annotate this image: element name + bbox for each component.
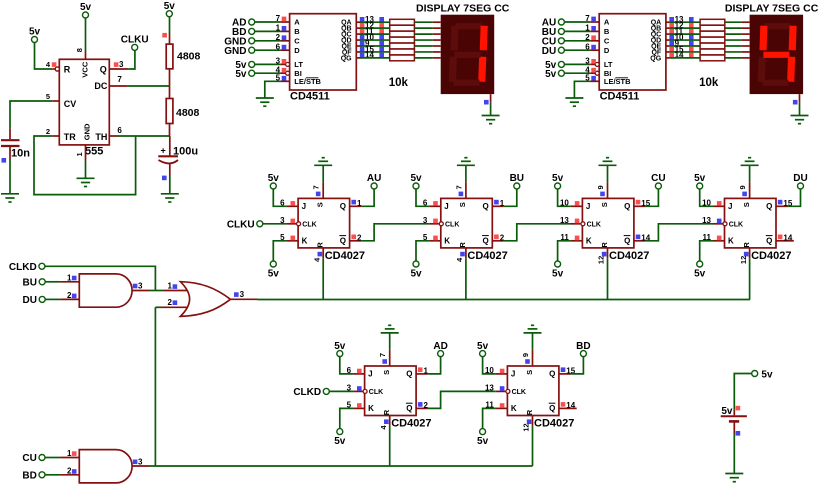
terminal AD (U7 Q output) xyxy=(433,341,447,357)
wire 5v to U5 K xyxy=(558,241,571,261)
svg-text:S: S xyxy=(600,202,609,207)
svg-text:5v: 5v xyxy=(761,370,773,381)
svg-text:4: 4 xyxy=(455,257,464,262)
svg-text:Q: Q xyxy=(340,202,346,211)
wire resistor to display segment f xyxy=(414,51,440,53)
U5 pin 13 number (CLK) xyxy=(560,216,579,225)
svg-text:3: 3 xyxy=(119,60,124,69)
wire BU to AND1 pin 1 xyxy=(45,281,79,283)
svg-text:1: 1 xyxy=(167,281,172,290)
wire AD to U1 pin 7 xyxy=(255,21,290,23)
svg-text:J: J xyxy=(368,370,372,379)
svg-text:Q: Q xyxy=(406,404,412,413)
wire ground to U6 S xyxy=(749,165,751,182)
svg-text:9: 9 xyxy=(521,353,530,357)
power terminal 5v (U4 J) xyxy=(410,173,422,189)
U2 pin 9 number xyxy=(669,39,693,48)
svg-text:10n: 10n xyxy=(11,148,30,160)
svg-text:DU: DU xyxy=(542,46,556,57)
U5 pin 10 number (J) xyxy=(560,199,579,208)
svg-text:2: 2 xyxy=(276,33,281,42)
svg-text:7: 7 xyxy=(117,75,122,84)
U2 pin 2 number xyxy=(585,33,596,42)
svg-text:10: 10 xyxy=(560,199,569,208)
U1 pin 8 number xyxy=(75,48,84,52)
svg-text:BU: BU xyxy=(510,173,524,184)
svg-text:Q: Q xyxy=(549,404,555,413)
svg-text:5v: 5v xyxy=(268,269,280,280)
U6 pin 14 number (Q-bar) xyxy=(778,234,793,243)
svg-text:BU: BU xyxy=(23,277,37,288)
U4 pin 1 number (Q) xyxy=(494,199,505,208)
U3 pin 7 number (S) xyxy=(312,185,321,196)
svg-text:CU: CU xyxy=(651,173,665,184)
power terminal 5v (555 reset) xyxy=(29,27,41,43)
svg-text:J: J xyxy=(586,202,590,211)
svg-text:9: 9 xyxy=(738,185,747,189)
ground (C1) xyxy=(1,194,19,202)
svg-text:S: S xyxy=(316,202,325,207)
power terminal 5v (U7 J) xyxy=(334,341,346,357)
U1 pin 6 number xyxy=(276,42,287,51)
U1 pin 1 number xyxy=(75,152,84,156)
wire U2 QF to resistor xyxy=(666,51,700,53)
svg-text:5v: 5v xyxy=(235,69,247,80)
svg-text:4808: 4808 xyxy=(177,51,201,63)
BCD decoder U2 CD4511 xyxy=(595,14,666,103)
JK flip-flop U5 CD4027 xyxy=(571,182,649,261)
U4 pin 3 number (CLK) xyxy=(423,216,438,225)
svg-text:5v: 5v xyxy=(721,406,733,417)
svg-text:CLKU: CLKU xyxy=(227,219,255,230)
display DISP1 7-segment common-cathode xyxy=(441,15,495,94)
U1 pin 11 number xyxy=(360,27,384,36)
U2 pin 3 number xyxy=(585,57,596,66)
battery BAT1 5v xyxy=(721,406,747,433)
svg-text:1: 1 xyxy=(75,152,84,156)
U8 pin 13 number (CLK) xyxy=(485,384,504,393)
svg-text:LT: LT xyxy=(294,60,303,69)
wire 5v to U7 J xyxy=(340,357,353,374)
U6 pin 13 number (CLK) xyxy=(702,216,721,225)
capacitor C1 10n xyxy=(1,128,30,160)
svg-text:QG: QG xyxy=(650,55,661,62)
wire U6 R to reset rail xyxy=(749,258,751,299)
resistor 10k (QE) xyxy=(700,43,725,49)
wire ground to U5 S xyxy=(607,165,609,182)
resistor 10k (QC) xyxy=(700,31,725,37)
svg-text:12: 12 xyxy=(739,256,748,264)
wire U8 Q to BD xyxy=(570,357,583,374)
svg-text:BD: BD xyxy=(576,341,590,352)
wire 5v to U8 K xyxy=(483,408,496,428)
svg-text:6: 6 xyxy=(117,126,122,135)
JK flip-flop U3 CD4027 xyxy=(287,182,365,261)
wire display cathode to ground xyxy=(799,94,801,115)
svg-text:DISPLAY 7SEG CC: DISPLAY 7SEG CC xyxy=(725,2,819,14)
svg-text:10k: 10k xyxy=(389,77,409,89)
wire U2 QC to resistor xyxy=(666,33,700,35)
OR gate 1 xyxy=(180,282,230,317)
wire AU to U2 pin 7 xyxy=(565,21,600,23)
wire 5v to U5 J xyxy=(558,189,571,206)
wire DU to AND1 pin 2 xyxy=(45,298,79,300)
wire resistor to display segment d xyxy=(725,39,750,41)
svg-text:S: S xyxy=(525,370,534,375)
svg-text:5: 5 xyxy=(280,233,285,242)
wire U1 QE to resistor xyxy=(356,45,389,47)
U1 pin 13 number xyxy=(360,15,384,24)
DISP1 cathode state square xyxy=(484,100,489,105)
U4 pin 4 number (R) xyxy=(455,252,465,262)
wire U2 QE to resistor xyxy=(666,45,700,47)
power terminal 5v (U5 J) xyxy=(552,173,564,189)
svg-text:Q: Q xyxy=(766,237,772,246)
svg-text:K: K xyxy=(586,237,592,246)
svg-text:Q: Q xyxy=(624,202,630,211)
svg-text:5v: 5v xyxy=(477,436,489,447)
U6 pin 12 number (R) xyxy=(739,252,749,264)
U1 pin 3 number xyxy=(114,60,124,69)
power terminal GND (U1 D) xyxy=(224,46,254,57)
wire resistor to display segment b xyxy=(725,27,750,29)
svg-text:1: 1 xyxy=(585,24,590,33)
wire 5v to 555 VCC pin 8 xyxy=(85,18,87,52)
svg-text:4808: 4808 xyxy=(176,107,200,119)
resistor 10k (QE) xyxy=(390,43,415,49)
wire U4 R to reset rail xyxy=(465,258,467,299)
svg-text:5: 5 xyxy=(276,73,281,82)
svg-text:D: D xyxy=(294,46,300,55)
wire 5v to U6 J xyxy=(700,189,713,206)
wire U3 Q to AU xyxy=(361,189,374,206)
wire resistor to display segment a xyxy=(725,21,750,23)
svg-text:2: 2 xyxy=(585,33,590,42)
wire U2 QA to resistor xyxy=(666,21,700,23)
svg-text:1: 1 xyxy=(67,449,72,458)
U1 pin 5 number xyxy=(46,92,50,101)
wire CLKD to U7 CLK xyxy=(329,390,353,392)
svg-text:C: C xyxy=(604,36,610,45)
wire resistor to display segment d xyxy=(414,39,440,41)
svg-text:CLK: CLK xyxy=(369,389,383,396)
wire ground to U4 S xyxy=(465,165,467,182)
terminal AD (U1 A input) xyxy=(232,18,255,29)
svg-text:12: 12 xyxy=(522,423,531,431)
svg-text:3: 3 xyxy=(276,57,281,66)
wire U5 Q-bar to next stage clock xyxy=(645,224,713,241)
svg-text:CLKU: CLKU xyxy=(121,35,149,46)
svg-text:CLK: CLK xyxy=(587,221,601,228)
AND2 pin 2 number xyxy=(67,467,77,476)
resistor 10k (QA) xyxy=(700,19,725,25)
svg-text:R: R xyxy=(458,242,467,248)
svg-text:11: 11 xyxy=(485,401,494,410)
terminal DU (AND1 input 2) xyxy=(23,295,46,306)
svg-text:K: K xyxy=(511,404,517,413)
U3 pin 4 number (R) xyxy=(312,252,322,262)
svg-text:4: 4 xyxy=(312,257,321,262)
svg-text:DC: DC xyxy=(94,81,107,91)
resistor pack value label 10k xyxy=(699,77,719,89)
555 timer U1 xyxy=(52,52,128,161)
svg-text:5v: 5v xyxy=(410,269,422,280)
svg-text:DISPLAY 7SEG CC: DISPLAY 7SEG CC xyxy=(416,2,510,14)
wire BD to U1 pin 1 xyxy=(255,30,290,32)
wire DU to U2 pin 6 xyxy=(565,49,600,51)
resistor 10k (QG) xyxy=(700,55,725,61)
svg-text:4: 4 xyxy=(379,425,388,430)
svg-text:8: 8 xyxy=(75,48,84,52)
svg-text:B: B xyxy=(294,27,300,36)
svg-text:Q: Q xyxy=(340,237,346,246)
svg-text:5v: 5v xyxy=(164,1,176,12)
power terminal 5v (U5 K) xyxy=(552,261,564,280)
U8 pin 12 number (R) xyxy=(522,419,532,431)
svg-text:5v: 5v xyxy=(334,436,346,447)
U8 pin 14 number (Q-bar) xyxy=(561,401,576,410)
power terminal 5v (U3 J) xyxy=(268,173,280,189)
AND1 pin 2 number xyxy=(67,291,77,300)
svg-text:3: 3 xyxy=(240,290,245,299)
wire U2 QD to resistor xyxy=(666,39,700,41)
terminal DU (U6 Q output) xyxy=(793,173,807,189)
wire CLKD to AND1 output net xyxy=(45,266,155,290)
DISP2 cathode state square xyxy=(793,100,798,105)
power terminal 5v (U1 BI) xyxy=(235,69,254,80)
svg-text:S: S xyxy=(458,202,467,207)
svg-text:J: J xyxy=(511,370,515,379)
wire resistor to display segment g xyxy=(725,57,750,59)
U1 pin 12 number xyxy=(360,21,384,30)
display title label xyxy=(725,2,819,14)
wire OR1 input 2 stub xyxy=(155,306,187,308)
wire U3 R to reset rail xyxy=(322,258,324,299)
U6 pin 15 number (Q) xyxy=(778,199,793,208)
svg-text:B: B xyxy=(604,27,610,36)
wire battery positive to 5v terminal xyxy=(734,374,751,410)
AND1 pin 3 number xyxy=(133,282,143,291)
power terminal 5v (U8 J) xyxy=(477,341,489,357)
U8 pin 10 number (J) xyxy=(485,366,504,375)
wire 5v to U2 pin 3 xyxy=(565,63,596,65)
svg-text:BD: BD xyxy=(22,470,36,481)
OR1 pin 1 number xyxy=(167,281,177,290)
svg-text:R: R xyxy=(525,409,534,415)
svg-text:R: R xyxy=(382,409,391,415)
svg-text:5: 5 xyxy=(46,92,50,101)
wire CU to AND2 pin 1 xyxy=(45,457,79,459)
AND1 pin 1 number xyxy=(67,273,77,282)
resistor 10k (QG) xyxy=(390,55,415,61)
svg-text:K: K xyxy=(728,237,734,246)
U5 pin 9 number (S) xyxy=(596,185,605,196)
wire CLKU to U3 CLK xyxy=(263,223,287,225)
wire U6 Q-bar (unconnected stub) xyxy=(788,240,794,242)
U1 pin 1 number xyxy=(276,24,287,33)
wire U1 QF to resistor xyxy=(356,51,389,53)
U5 pin 11 number (K) xyxy=(560,233,579,242)
svg-text:2: 2 xyxy=(167,298,172,307)
svg-text:R: R xyxy=(600,242,609,248)
svg-text:5v: 5v xyxy=(694,173,706,184)
terminal CLKU (555 output) xyxy=(121,35,149,51)
U1 pin 4 number xyxy=(46,60,57,69)
wire 5v to 555 R pin xyxy=(35,43,53,69)
svg-text:R: R xyxy=(742,242,751,248)
svg-text:5v: 5v xyxy=(410,173,422,184)
svg-text:6: 6 xyxy=(585,42,590,51)
terminal CLKD (AND1 output node) xyxy=(9,262,45,273)
power terminal 5v (U7 K) xyxy=(334,429,346,448)
U4 pin 2 number (Q-bar) xyxy=(494,234,505,243)
ground (DISP2) xyxy=(791,116,809,124)
resistor 10k (QD) xyxy=(390,37,415,43)
svg-text:Q: Q xyxy=(624,237,630,246)
wire ground to U3 S xyxy=(322,165,324,182)
svg-text:7: 7 xyxy=(454,185,463,189)
wire ground to U8 S xyxy=(532,333,534,350)
svg-text:CD4511: CD4511 xyxy=(290,90,330,102)
svg-text:J: J xyxy=(302,202,306,211)
display DISP2 7-segment common-cathode xyxy=(750,15,804,94)
svg-text:100u: 100u xyxy=(173,145,198,157)
wire TR to TH node xyxy=(34,136,136,195)
U2 pin 12 number xyxy=(669,21,693,30)
power terminal 5v (U2 BI) xyxy=(545,69,564,80)
svg-text:QG: QG xyxy=(341,55,352,62)
U8 pin 9 number (S) xyxy=(521,353,530,364)
terminal BU (AND1 input 1) xyxy=(23,277,46,288)
svg-text:CD4511: CD4511 xyxy=(600,90,640,102)
U3 pin 2 number (Q-bar) xyxy=(351,234,362,243)
U8 pin 15 number (Q) xyxy=(561,366,576,375)
svg-text:11: 11 xyxy=(703,233,712,242)
wire 5v to U7 K xyxy=(340,408,353,428)
wire resistor to display segment f xyxy=(725,51,750,53)
wire U1 QG to resistor xyxy=(356,57,389,59)
wire U6 Q to DU xyxy=(788,189,801,206)
wire CV to C1 xyxy=(10,101,52,128)
wire resistor to display segment g xyxy=(414,57,440,59)
svg-text:3: 3 xyxy=(138,282,143,291)
resistor 10k (QB) xyxy=(390,25,415,31)
svg-text:A: A xyxy=(604,18,610,27)
svg-text:K: K xyxy=(368,404,374,413)
wire 5v to U1 pin 3 xyxy=(255,63,286,65)
svg-text:Q: Q xyxy=(482,202,488,211)
svg-text:6: 6 xyxy=(276,42,281,51)
JK flip-flop U7 CD4027 xyxy=(353,350,431,430)
svg-text:CLK: CLK xyxy=(729,221,743,228)
wire 5v to U4 K xyxy=(416,241,429,261)
svg-text:5v: 5v xyxy=(29,27,41,38)
wire U1 QC to resistor xyxy=(356,33,389,35)
wire resistor to display segment e xyxy=(414,45,440,47)
U7 pin 5 number (K) xyxy=(347,401,362,410)
svg-text:5v: 5v xyxy=(334,341,346,352)
wire BD to AND2 pin 2 xyxy=(45,474,79,476)
resistor 10k (QF) xyxy=(700,49,725,55)
BCD decoder U1 CD4511 xyxy=(286,14,357,103)
U5 pin 12 number (R) xyxy=(597,252,607,264)
svg-text:13: 13 xyxy=(560,216,569,225)
R1 top pin state square xyxy=(162,33,167,38)
ground (U5 S pin) xyxy=(599,158,617,166)
wire battery negative to ground xyxy=(733,433,735,474)
svg-text:AD: AD xyxy=(433,341,447,352)
AND gate 1 xyxy=(79,274,132,307)
resistor 10k (QF) xyxy=(390,49,415,55)
resistor R2 4808 xyxy=(166,86,199,136)
resistor 10k (QD) xyxy=(700,37,725,43)
U7 pin 3 number (CLK) xyxy=(347,384,362,393)
wire 5v to U3 J xyxy=(273,189,286,206)
wire C1 to ground xyxy=(9,160,11,194)
battery positive state square xyxy=(736,406,741,411)
resistor 10k (QC) xyxy=(390,31,415,37)
svg-text:7: 7 xyxy=(312,185,321,189)
svg-text:7: 7 xyxy=(378,353,387,357)
ground (DISP1) xyxy=(482,116,500,124)
U2 pin 5 number xyxy=(585,73,596,82)
wire AND1/OR1 node to AND2 output rail (OR1 input 2 feed) xyxy=(154,307,156,466)
U7 pin 4 number (R) xyxy=(379,419,389,429)
U1 pin 3 number xyxy=(276,57,287,66)
U2 pin 11 number xyxy=(669,27,693,36)
JK flip-flop U6 CD4027 xyxy=(713,182,791,261)
U7 pin 7 number (S) xyxy=(378,353,387,364)
U1 pin 10 number xyxy=(360,33,384,42)
svg-text:R: R xyxy=(316,242,325,248)
svg-text:4: 4 xyxy=(46,60,51,69)
terminal BU (U2 B input) xyxy=(542,27,565,38)
svg-text:K: K xyxy=(444,237,450,246)
svg-text:AU: AU xyxy=(367,173,381,184)
svg-text:3: 3 xyxy=(347,384,352,393)
svg-text:5: 5 xyxy=(423,233,428,242)
U2 pin 6 number xyxy=(585,42,596,51)
U1 pin 5 number xyxy=(276,73,287,82)
C1 state square xyxy=(2,158,7,163)
terminal CLKU (U3 clock) xyxy=(227,219,263,230)
ground (U3 S pin) xyxy=(314,158,332,166)
svg-text:CLK: CLK xyxy=(445,221,459,228)
U2 pin 15 number xyxy=(669,45,693,54)
U1 pin 2 number xyxy=(46,127,50,136)
wire U7 Q-bar to next stage clock xyxy=(428,391,496,408)
svg-text:5v: 5v xyxy=(80,2,92,13)
wire U1 LE pin 5 to ground xyxy=(265,81,290,98)
svg-text:S: S xyxy=(742,202,751,207)
wire U8 Q-bar (unconnected stub) xyxy=(570,407,576,409)
wire display cathode to ground xyxy=(490,94,492,115)
wire 5v to U3 K xyxy=(273,241,286,261)
svg-text:Q: Q xyxy=(482,237,488,246)
svg-text:CD4027: CD4027 xyxy=(325,250,365,262)
svg-text:GND: GND xyxy=(82,123,91,140)
power terminal 5v (R1 top) xyxy=(164,1,176,17)
U1 pin 6 number xyxy=(117,126,122,135)
wire U2 QG to resistor xyxy=(666,57,700,59)
svg-text:CLK: CLK xyxy=(512,389,526,396)
svg-text:555: 555 xyxy=(85,145,103,157)
capacitor C2 100u (electrolytic) xyxy=(158,136,198,175)
display title label xyxy=(416,2,510,14)
svg-text:CLK: CLK xyxy=(302,221,316,228)
svg-text:3: 3 xyxy=(423,216,428,225)
wire BU to U2 pin 1 xyxy=(565,30,600,32)
